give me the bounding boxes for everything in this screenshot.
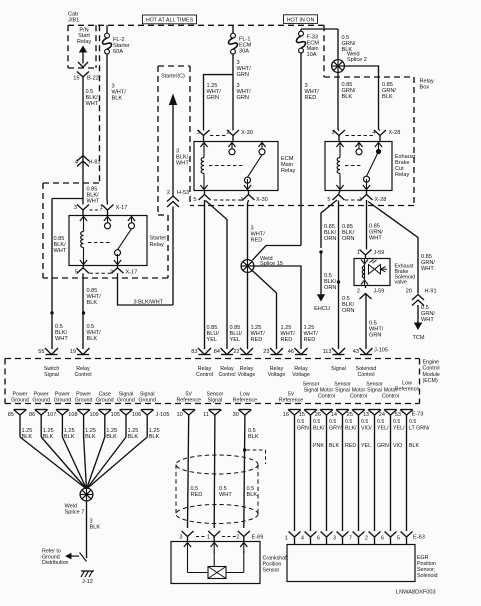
svg-text:0.5: 0.5 <box>345 419 352 425</box>
wire 3 BLK/WHT pin2 to H-53 <box>118 273 174 305</box>
svg-text:3: 3 <box>179 534 182 540</box>
svg-text:GRN: GRN <box>237 95 249 101</box>
svg-text:0.5: 0.5 <box>393 419 400 425</box>
svg-text:0.5: 0.5 <box>377 419 384 425</box>
svg-text:0.5: 0.5 <box>313 419 320 425</box>
svg-text:0.5: 0.5 <box>361 419 368 425</box>
connector X-28 top pins 3 and 4 <box>333 130 345 136</box>
wire 0.5 BLK from pin 30 <box>244 415 245 528</box>
svg-text:RED: RED <box>251 337 263 343</box>
svg-text:BLK: BLK <box>329 443 339 449</box>
svg-text:6: 6 <box>317 535 320 541</box>
svg-text:Splice 2: Splice 2 <box>347 57 367 63</box>
svg-text:X-30: X-30 <box>256 197 268 203</box>
svg-text:BLK: BLK <box>149 434 160 440</box>
svg-text:Control: Control <box>196 372 213 378</box>
svg-text:10: 10 <box>176 412 182 418</box>
sensor Crankshaft Position Sensor box <box>171 542 260 584</box>
svg-text:Starter: Starter <box>150 236 167 242</box>
svg-text:BLK: BLK <box>87 336 98 342</box>
svg-text:BLK: BLK <box>64 434 75 440</box>
svg-text:Starter(C): Starter(C) <box>161 74 185 80</box>
wire 0.85 GRN/WHT to solenoid <box>366 200 368 250</box>
svg-text:53: 53 <box>395 412 401 418</box>
wire 1.25 WHT/GRN branch to X-30 pin 3 <box>204 75 234 130</box>
sensor EGR Position Sensor box <box>287 545 415 582</box>
svg-text:1: 1 <box>285 535 288 541</box>
svg-text:Box: Box <box>420 85 430 91</box>
svg-text:RED: RED <box>305 95 317 101</box>
svg-text:13: 13 <box>363 412 369 418</box>
svg-text:85: 85 <box>8 412 14 418</box>
svg-text:J-59: J-59 <box>374 250 385 256</box>
svg-text:Control: Control <box>218 372 235 378</box>
svg-text:Reference: Reference <box>233 398 257 404</box>
wire 0.85 GRN/BLK to X-28 pin 4 <box>344 66 379 130</box>
svg-text:Signal: Signal <box>304 388 319 394</box>
svg-text:GRN: GRN <box>297 426 309 432</box>
fuse F-33 ECM Main 10A <box>301 28 338 30</box>
svg-text:Engine: Engine <box>423 360 440 366</box>
svg-text:24: 24 <box>379 412 385 418</box>
svg-text:J-105: J-105 <box>374 348 388 354</box>
svg-text:LNWA8DXF003: LNWA8DXF003 <box>396 590 436 596</box>
svg-text:Control: Control <box>357 372 374 378</box>
svg-text:Sensor: Sensor <box>263 568 280 574</box>
svg-text:YEL: YEL <box>207 337 218 343</box>
svg-text:26: 26 <box>315 412 321 418</box>
svg-text:H-91: H-91 <box>425 289 437 295</box>
svg-text:Ground: Ground <box>32 398 50 404</box>
svg-text:X-30: X-30 <box>241 130 253 136</box>
svg-text:30: 30 <box>233 412 239 418</box>
relay Exhaust Brake Cut Relay contacts <box>358 143 360 154</box>
svg-text:0.5: 0.5 <box>409 419 416 425</box>
svg-text:0.5: 0.5 <box>248 428 256 434</box>
svg-text:3: 3 <box>197 130 200 136</box>
svg-text:2: 2 <box>365 535 368 541</box>
svg-text:Ground: Ground <box>54 398 72 404</box>
weld splice 7 <box>80 488 93 501</box>
svg-text:valve: valve <box>395 280 407 286</box>
wire 1.25 WHT/RED to pin 46 <box>253 266 301 349</box>
svg-text:Ground: Ground <box>11 398 29 404</box>
sensor crank internals <box>187 543 189 554</box>
svg-text:5: 5 <box>193 197 196 203</box>
svg-text:J-59: J-59 <box>374 289 385 295</box>
connector J-59 pin 1 <box>360 250 372 256</box>
svg-text:108: 108 <box>68 412 77 418</box>
wire 0.85 GRN/BLK to X-28 pin 3 <box>337 72 339 130</box>
relay Exhaust Brake Cut Relay box <box>325 142 392 191</box>
svg-text:Voltage: Voltage <box>268 372 286 378</box>
wire 0.5 GRN/BLK to Weld Splice 2 <box>337 29 339 61</box>
svg-text:14: 14 <box>331 412 337 418</box>
svg-text:YEL/: YEL/ <box>393 426 405 432</box>
svg-text:WHT: WHT <box>219 492 232 498</box>
svg-text:E-63: E-63 <box>413 535 425 541</box>
svg-text:BLK: BLK <box>87 300 98 306</box>
svg-text:Signal: Signal <box>44 372 59 378</box>
svg-text:E-69: E-69 <box>252 534 264 540</box>
svg-text:2: 2 <box>110 270 113 276</box>
connector E-73 ECM bottom pins <box>289 409 301 411</box>
wire 0.85 WHT/BLK pin5 to pin 19 <box>82 273 84 349</box>
wire HOT AT ALL TIMES dashed bus <box>68 24 324 26</box>
wire 0.85 BLK/ORN to pin 113 <box>338 201 340 350</box>
connector J-105 ECM bottom pins <box>14 409 26 411</box>
wire 0.85 BLK/ORN to EHCU <box>321 200 337 248</box>
svg-text:Control: Control <box>382 394 399 400</box>
svg-text:5: 5 <box>75 270 78 276</box>
svg-text:BLK: BLK <box>112 96 123 102</box>
svg-text:Reference: Reference <box>176 398 200 404</box>
svg-text:GRN: GRN <box>369 333 381 339</box>
svg-text:X-17: X-17 <box>116 205 128 211</box>
wire stubs into top pins <box>204 348 206 349</box>
svg-text:ORN: ORN <box>324 285 336 291</box>
svg-text:84: 84 <box>214 349 220 355</box>
svg-text:J-12: J-12 <box>82 579 93 585</box>
wire 1.25 BLK ground wires to weld splice 7 <box>19 415 21 437</box>
relay Starter Relay box <box>69 216 147 266</box>
svg-text:BLK: BLK <box>90 525 101 531</box>
ground J-12 <box>81 570 94 572</box>
svg-text:1: 1 <box>207 534 210 540</box>
svg-text:2: 2 <box>357 289 360 295</box>
wire 0.5 RED from pin 10 <box>188 415 189 528</box>
wire 0.85 BLU/YEL to pin 83 <box>204 200 206 349</box>
svg-text:BLK: BLK <box>43 434 54 440</box>
connector E-63 pins <box>289 532 301 538</box>
svg-text:YEL: YEL <box>230 337 241 343</box>
svg-text:BLK: BLK <box>128 434 139 440</box>
wire 0.5 GRN/WHT to TCM <box>417 305 419 323</box>
wire F-33 elbow into weld splice 15 <box>252 246 301 261</box>
connector X-30 top pins 3 and 2 <box>203 130 205 131</box>
wire 3 BLK to ground <box>86 501 88 558</box>
svg-text:46: 46 <box>288 349 294 355</box>
svg-text:60A: 60A <box>113 49 123 55</box>
svg-text:BLK: BLK <box>85 434 96 440</box>
wire 0.85 BLU/YEL branch to pin 84 <box>206 201 228 350</box>
svg-text:22: 22 <box>233 349 239 355</box>
svg-text:2: 2 <box>236 534 239 540</box>
svg-text:Relay: Relay <box>150 242 165 248</box>
svg-text:Voltage: Voltage <box>292 372 310 378</box>
connector B-22 pin 15 <box>77 72 89 78</box>
svg-text:WHT: WHT <box>87 199 100 205</box>
svg-text:Solenoid: Solenoid <box>417 573 438 579</box>
relay Starter Relay contacts <box>107 217 109 228</box>
svg-text:X-17: X-17 <box>126 270 138 276</box>
svg-text:WHT: WHT <box>421 266 434 272</box>
svg-text:Ground: Ground <box>75 398 93 404</box>
weld splice 2 <box>332 60 345 73</box>
svg-text:WHT: WHT <box>421 317 434 323</box>
svg-text:3: 3 <box>74 205 77 211</box>
svg-text:Signal: Signal <box>335 388 350 394</box>
relay ECM Main Relay box <box>194 142 278 191</box>
svg-text:3 BLK/WHT: 3 BLK/WHT <box>134 299 164 305</box>
svg-text:(ECM): (ECM) <box>423 378 439 384</box>
svg-text:ORN: ORN <box>342 236 354 242</box>
svg-text:BLK: BLK <box>248 434 259 440</box>
svg-text:YEL/: YEL/ <box>377 426 389 432</box>
svg-text:BLK: BLK <box>382 94 393 100</box>
svg-text:Reference: Reference <box>279 398 303 404</box>
svg-text:Control: Control <box>318 394 335 400</box>
svg-text:2: 2 <box>167 190 170 196</box>
weld splice 15 <box>241 260 254 273</box>
svg-text:10A: 10A <box>307 52 317 58</box>
node HOT IN ON tag <box>284 15 318 24</box>
svg-text:WHT: WHT <box>86 101 99 107</box>
relay Starter Relay coil <box>83 217 85 228</box>
svg-text:VIO: VIO <box>393 443 402 449</box>
svg-text:WHT: WHT <box>54 248 67 254</box>
node Cab J/B1 junction block outline <box>67 25 69 68</box>
svg-text:Weld: Weld <box>65 503 78 509</box>
svg-text:55: 55 <box>38 349 44 355</box>
svg-text:109: 109 <box>89 412 98 418</box>
svg-text:107: 107 <box>47 412 56 418</box>
svg-text:3: 3 <box>333 535 336 541</box>
connector X-28 bottom pins 5 and 1 <box>339 191 341 195</box>
svg-text:J/B1: J/B1 <box>68 17 79 23</box>
svg-text:RED: RED <box>345 443 356 449</box>
fuse FL-2 Starter 60A <box>106 25 108 33</box>
svg-text:Control: Control <box>350 394 367 400</box>
module Engine Control Module outline <box>5 358 420 360</box>
node Relay Box boundary <box>323 25 325 77</box>
svg-text:B-22: B-22 <box>87 75 99 81</box>
svg-text:J-105: J-105 <box>156 412 170 418</box>
wire 1.25 WHT/RED to pin 22 <box>247 272 249 349</box>
wire 0.5 BLK/WHT from B-22 <box>82 77 84 199</box>
svg-text:7: 7 <box>349 535 352 541</box>
svg-text:30A: 30A <box>239 49 249 55</box>
wire branch to pin 55 <box>52 198 83 200</box>
svg-text:5: 5 <box>397 535 400 541</box>
svg-text:Signal: Signal <box>331 366 346 372</box>
wire starter cable with up arrow <box>169 94 177 106</box>
svg-text:Relay: Relay <box>77 39 92 45</box>
svg-text:15: 15 <box>73 75 79 81</box>
svg-text:Control: Control <box>74 372 91 378</box>
connector E-69 pins 3 1 2 <box>182 531 194 537</box>
wire 3 WHT/RED relay to weld splice 15 <box>248 200 249 260</box>
svg-text:ORN: ORN <box>324 236 336 242</box>
connector X-30 bottom pins 5 and 1 <box>204 191 206 195</box>
fuse FL-1 ECM 30A <box>232 25 234 33</box>
svg-text:Module: Module <box>423 372 440 378</box>
node J/B dashed inner edge <box>99 25 101 183</box>
svg-text:3: 3 <box>90 518 93 524</box>
svg-text:EHCU: EHCU <box>314 306 330 312</box>
svg-text:Relay: Relay <box>420 79 435 85</box>
node Starter(C) boundary <box>158 65 190 67</box>
svg-text:Distribution: Distribution <box>42 560 69 566</box>
svg-text:BLK/: BLK/ <box>345 426 357 432</box>
relay ECM Main Relay coil <box>203 143 205 154</box>
svg-text:106: 106 <box>132 412 141 418</box>
relay Exhaust Brake Cut Relay coil <box>339 143 341 154</box>
svg-text:15: 15 <box>299 412 305 418</box>
svg-text:2: 2 <box>226 130 229 136</box>
svg-text:1: 1 <box>357 250 360 256</box>
svg-text:BLK: BLK <box>247 492 258 498</box>
svg-text:RED: RED <box>281 337 293 343</box>
svg-text:25: 25 <box>347 412 353 418</box>
svg-text:113: 113 <box>323 349 332 355</box>
wire 3 WHT/GRN from FL-1 <box>232 54 234 130</box>
svg-text:GRN: GRN <box>237 72 249 78</box>
wire 0.5 WHT/GRN to pin 43 <box>365 294 367 350</box>
node cable shield cylinder <box>176 455 258 474</box>
svg-text:0.5: 0.5 <box>297 419 304 425</box>
svg-text:Control: Control <box>423 366 440 372</box>
svg-text:Signal: Signal <box>208 398 223 404</box>
connector ECM bottom pins 10 11 30 <box>183 409 195 411</box>
svg-text:0.5: 0.5 <box>329 419 336 425</box>
svg-text:GRY/: GRY/ <box>329 426 342 432</box>
svg-text:19: 19 <box>70 349 76 355</box>
svg-text:WHT: WHT <box>55 336 68 342</box>
svg-text:Relay: Relay <box>281 168 296 174</box>
svg-text:WHT: WHT <box>369 236 382 242</box>
svg-text:HOT AT ALL TIMES: HOT AT ALL TIMES <box>146 18 194 24</box>
svg-text:H-81: H-81 <box>89 159 101 165</box>
svg-text:BLK: BLK <box>106 434 117 440</box>
svg-text:20: 20 <box>406 289 412 295</box>
svg-text:X-28: X-28 <box>389 130 401 136</box>
svg-text:HOT IN ON: HOT IN ON <box>287 17 315 23</box>
connector J-105 ECM top pins <box>45 348 58 355</box>
svg-text:TCM: TCM <box>412 335 424 341</box>
node HOT AT ALL TIMES tag <box>143 15 197 24</box>
svg-text:RED: RED <box>191 492 203 498</box>
svg-text:23: 23 <box>263 349 269 355</box>
svg-text:5: 5 <box>327 197 330 203</box>
svg-text:43: 43 <box>353 349 359 355</box>
svg-text:BLK/: BLK/ <box>313 426 325 432</box>
svg-text:Reference: Reference <box>395 387 419 393</box>
svg-text:11: 11 <box>203 412 209 418</box>
svg-text:Voltage: Voltage <box>238 372 256 378</box>
relay ECM Main Relay contacts <box>231 143 233 154</box>
svg-text:X-28: X-28 <box>375 197 387 203</box>
wire 0.85 GRN/WHT branch to H-91 <box>368 202 418 294</box>
svg-text:6: 6 <box>381 535 384 541</box>
svg-text:E-73: E-73 <box>412 411 424 417</box>
svg-text:Ground: Ground <box>96 398 114 404</box>
wire harness ECM to EGR sensor <box>294 415 296 531</box>
connector X-17 bottom pins 5 and 2 <box>82 266 85 268</box>
svg-text:Splice 7: Splice 7 <box>65 510 85 516</box>
svg-text:3: 3 <box>331 130 334 136</box>
solenoid Exhaust Brake Solenoid valve <box>354 259 390 286</box>
svg-text:BLK: BLK <box>22 434 33 440</box>
svg-text:BLK: BLK <box>409 443 419 449</box>
svg-text:16: 16 <box>283 412 289 418</box>
connector J-59 pin 2 <box>365 286 367 289</box>
svg-text:4: 4 <box>301 535 304 541</box>
svg-text:86: 86 <box>29 412 35 418</box>
svg-text:83: 83 <box>191 349 197 355</box>
svg-text:RED: RED <box>304 337 316 343</box>
svg-text:LT GRN/: LT GRN/ <box>409 426 430 432</box>
svg-text:GRN: GRN <box>377 443 389 449</box>
svg-text:PNK: PNK <box>313 443 324 449</box>
svg-text:Relay: Relay <box>395 172 410 178</box>
svg-text:WHT: WHT <box>176 161 189 167</box>
svg-text:VIO/: VIO/ <box>361 426 372 432</box>
node shield drain dashes <box>247 449 266 451</box>
svg-text:Signal: Signal <box>367 388 382 394</box>
wire 3 WHT/RED from F-33 <box>300 53 302 246</box>
wire 1.25 WHT/RED to pin 23 <box>252 270 277 349</box>
svg-text:BLK: BLK <box>342 94 353 100</box>
svg-text:GRN: GRN <box>207 95 219 101</box>
svg-text:H-53: H-53 <box>177 190 189 196</box>
svg-text:RED: RED <box>251 238 263 244</box>
wire 0.5 WHT from pin 11 <box>213 415 216 528</box>
svg-text:Ground: Ground <box>138 398 156 404</box>
svg-text:105: 105 <box>111 412 120 418</box>
connector X-17 top pins 3 and 1 <box>82 199 84 205</box>
svg-text:Ground: Ground <box>117 398 135 404</box>
svg-text:ORN: ORN <box>342 308 354 314</box>
svg-text:YEL: YEL <box>361 443 371 449</box>
wire 3 WHT/BLK from FL-2 <box>106 54 108 199</box>
